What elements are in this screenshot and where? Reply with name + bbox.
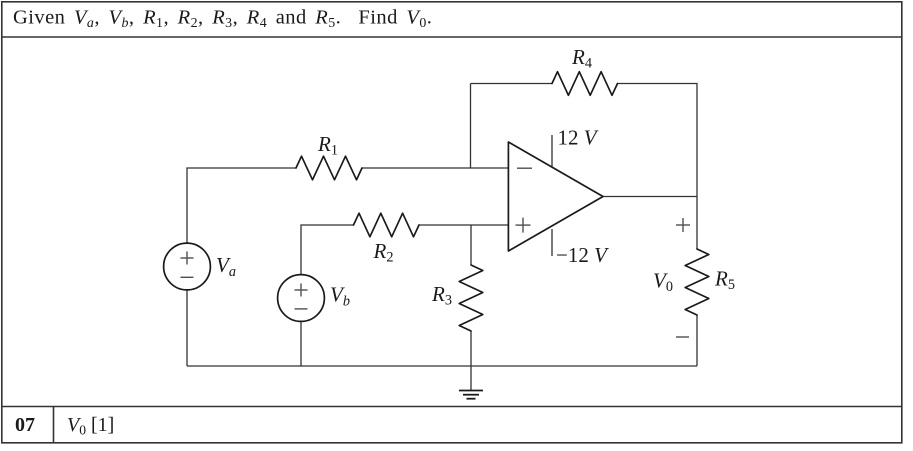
op-amp power pin top [551, 135, 553, 167]
svg-text:R3: R3 [431, 282, 452, 309]
wire op-amp output [603, 196, 697, 198]
Va plus [181, 252, 194, 265]
svg-text:Vb: Vb [330, 283, 350, 310]
resistor R5 [685, 249, 709, 315]
svg-text:R4: R4 [571, 45, 592, 72]
source Va circle [164, 243, 211, 290]
svg-text:R2: R2 [373, 239, 394, 266]
wire feedback top right [618, 84, 698, 197]
wire Va to bottom rail [186, 289, 188, 366]
svg-text:Va: Va [216, 253, 236, 280]
wire bottom rail [187, 365, 697, 367]
wire R3 top [470, 225, 472, 265]
svg-text:V0: V0 [653, 269, 673, 296]
wire R1 to op-amp inverting input [362, 167, 509, 169]
Vb plus [295, 284, 308, 297]
resistor R2 [354, 213, 420, 237]
Vb minus [295, 308, 308, 310]
plus/minus marks [181, 168, 691, 337]
resistor R3 [459, 265, 483, 331]
output minus [676, 336, 689, 338]
svg-text:V0 [1]: V0 [1] [67, 414, 114, 438]
op-amp noninverting plus [516, 218, 531, 233]
resistor R1 [296, 156, 362, 180]
wire left rail upper [187, 168, 296, 243]
wire R3 to bottom rail [470, 331, 472, 366]
svg-text:−12 V: −12 V [556, 243, 609, 267]
op-amp inverting minus [517, 167, 532, 169]
source Vb circle [278, 275, 325, 322]
wire Vb to R2 [301, 225, 354, 275]
resistor R4 [552, 72, 618, 96]
svg-text:12 V: 12 V [558, 126, 599, 150]
svg-text:R5: R5 [714, 267, 735, 294]
wire feedback vertical [470, 84, 472, 169]
op-amp power pin bottom [551, 229, 553, 256]
wire feedback top left [471, 83, 553, 85]
wire Vb bottom [300, 321, 302, 366]
svg-text:07: 07 [15, 414, 35, 436]
op-amp U1 [508, 142, 603, 251]
wire R5 to bottom rail [696, 315, 698, 366]
wire ground stem [470, 366, 472, 390]
ground [459, 391, 483, 399]
wire output to R5 [696, 197, 698, 250]
wire R2 to op-amp noninverting input [419, 224, 509, 226]
Va minus [181, 276, 194, 278]
svg-text:R1: R1 [317, 132, 338, 159]
output plus [676, 218, 690, 232]
svg-text:Given Va, Vb, R1, R2, R3, R4 a: Given Va, Vb, R1, R2, R3, R4 and R5. Fin… [13, 7, 432, 32]
